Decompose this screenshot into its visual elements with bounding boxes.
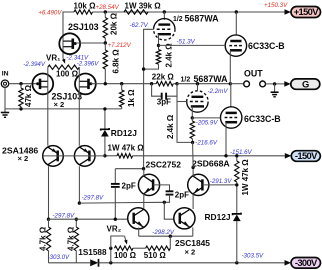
resistor 20kΩ: [104, 12, 106, 18]
terminal -300V: [291, 258, 321, 269]
node: -205.9V: [191, 116, 194, 119]
svg-text:4.7k Ω: 4.7k Ω: [66, 226, 75, 251]
tube V1 6C33C-B (upper output): [235, 12, 237, 35]
svg-text:2SJ103: 2SJ103: [68, 22, 99, 32]
wire: -300V bottom rail: [49, 262, 91, 264]
svg-text:-62.7V: -62.7V: [130, 22, 149, 29]
svg-text:6C33C-B: 6C33C-B: [248, 41, 285, 51]
wire: signal line to OUT: [177, 83, 230, 85]
svg-text:1/2: 1/2: [173, 16, 183, 23]
resistor 47kΩ (input): [19, 88, 23, 107]
svg-text:1W 39k Ω: 1W 39k Ω: [125, 1, 162, 10]
svg-text:1W 47k Ω: 1W 47k Ω: [108, 143, 145, 152]
svg-text:1k Ω: 1k Ω: [127, 89, 136, 107]
terminal -150V: [291, 151, 320, 162]
ground symbol (input): [4, 109, 6, 112]
svg-text:5687WA: 5687WA: [185, 14, 220, 24]
capacitor 2pF (left): [115, 168, 143, 170]
node: input / 47k junction: [19, 82, 22, 85]
transistor Q2 2SJ103 (diff pair left): [32, 74, 53, 95]
svg-text:-297.8V: -297.8V: [53, 213, 76, 220]
wire: Q9 emitter: [192, 227, 194, 236]
wire: main signal line (output bus): [105, 83, 151, 85]
svg-text:OUT: OUT: [244, 69, 263, 79]
wire: Q3 top to VR1 right: [78, 67, 80, 146]
svg-text:3pF: 3pF: [157, 98, 171, 107]
svg-text:2SD668A: 2SD668A: [192, 158, 230, 168]
svg-text:-291.3V: -291.3V: [210, 178, 233, 185]
transistor Q6 2SC2752: [138, 174, 159, 195]
wire: Q8 emitter: [138, 227, 140, 236]
svg-text:-297.8V: -297.8V: [82, 195, 105, 202]
svg-text:10k Ω: 10k Ω: [74, 2, 97, 11]
resistor 22kΩ: [156, 82, 173, 86]
wire: Q7 base to bias chain: [202, 184, 236, 186]
resistor 10kΩ: [74, 10, 93, 14]
wire: U2 cathode: [191, 107, 193, 118]
arrow to G: [284, 81, 291, 87]
node: +7.212V junction: [104, 41, 107, 44]
wire: gate of Q1 to +7.212V node: [75, 42, 105, 44]
wire: Q5 emitter: [78, 166, 80, 203]
arrow to -300V: [285, 260, 292, 266]
svg-text:1/2: 1/2: [181, 77, 191, 84]
svg-text:-150V: -150V: [295, 150, 318, 161]
wiper arrow of VR1: [63, 58, 64, 62]
wire: input to gate of Q2: [9, 83, 36, 85]
svg-text:2SC1845: 2SC1845: [175, 238, 210, 248]
svg-text:-205.9V: -205.9V: [196, 120, 219, 127]
svg-text:-216.6V: -216.6V: [195, 139, 218, 146]
node: grid column / 2.4k: [142, 67, 145, 70]
svg-text:1S1588: 1S1588: [78, 248, 107, 257]
svg-text:2.4k Ω: 2.4k Ω: [166, 114, 175, 139]
resistor 6.8kΩ: [104, 43, 106, 50]
resistor 2.4kΩ (lower): [190, 121, 194, 139]
node: junction top rail / 20k: [104, 10, 107, 13]
terminal +150V: [291, 7, 321, 18]
wire: V1 cathode to OUT bus: [229, 50, 231, 83]
svg-text:× 2: × 2: [185, 248, 196, 257]
wire: V1 grid line: [159, 44, 226, 46]
svg-text:510 Ω: 510 Ω: [144, 251, 167, 260]
wire: emitters to 510Ω: [169, 236, 171, 248]
wire: Q4 emitter: [48, 166, 50, 219]
transistor Q3 2SJ103 (diff pair right): [75, 74, 96, 95]
wire: Q6 base to 2pF: [153, 185, 169, 191]
triode U1 1/2 5687WA (upper): [163, 12, 165, 20]
node: -297.8V (left): [47, 218, 50, 221]
resistor 510Ω: [133, 247, 146, 249]
svg-text:× 2: × 2: [18, 154, 29, 163]
wire: +150V top rail: [63, 12, 74, 13]
svg-text:1W 47k Ω: 1W 47k Ω: [241, 159, 250, 196]
svg-text:4.7k Ω: 4.7k Ω: [39, 226, 48, 251]
svg-text:RD12J: RD12J: [111, 128, 137, 138]
svg-text:100 Ω: 100 Ω: [56, 69, 79, 78]
svg-text:-298.2V: -298.2V: [152, 229, 175, 236]
arrow to +150V: [285, 9, 292, 15]
svg-text:2pF: 2pF: [175, 190, 189, 199]
wire: mirror output line: [79, 201, 164, 204]
tube V2 6C33C-B (lower output): [230, 84, 232, 107]
capacitor 2pF (right): [166, 190, 174, 192]
svg-text:-2.394V: -2.394V: [23, 61, 46, 68]
transistor Q5 2SA1486 (mirror right): [74, 146, 95, 167]
wire: Q6 collector: [143, 169, 145, 176]
wire: Q3 gate to divider node: [91, 83, 105, 85]
svg-text:-151.6V: -151.6V: [230, 149, 253, 156]
wire: Q7 collector: [192, 167, 194, 176]
svg-text:100 Ω: 100 Ω: [114, 251, 137, 260]
svg-text:-2.396V: -2.396V: [77, 60, 100, 67]
svg-text:RD12J: RD12J: [205, 212, 231, 222]
svg-text:22k Ω: 22k Ω: [152, 73, 175, 82]
svg-text:6.8k Ω: 6.8k Ω: [111, 49, 120, 74]
wire: Q2 top to VR1 left: [47, 67, 49, 145]
svg-text:-303.5V: -303.5V: [242, 252, 265, 259]
wire: U2 grid tie: [177, 84, 193, 143]
resistor 2.4kΩ (upper): [156, 50, 160, 65]
svg-text:VR₂: VR₂: [107, 224, 122, 233]
svg-text:6C33C-B: 6C33C-B: [244, 114, 281, 124]
svg-text:+150V: +150V: [294, 6, 320, 17]
node: junction top rail / 6C33C plate: [235, 10, 238, 13]
zener diode RD12J (left): [104, 109, 106, 129]
diode 1S1588: [90, 259, 98, 266]
node: -297.8V (right): [78, 201, 81, 204]
wire: V2 cathode to -150V rail: [225, 122, 227, 155]
ground symbol (output): [274, 84, 276, 92]
resistor 1W 47kΩ (left): [117, 154, 133, 158]
node: junction top rail / 5687 plate: [163, 10, 166, 13]
svg-text:+28.54V: +28.54V: [96, 4, 120, 11]
wire: base lead of Q9: [164, 202, 174, 219]
svg-text:G: G: [302, 78, 309, 89]
wire: Q6 emitter to Q8 collector: [143, 194, 145, 209]
node: -51.3V: [157, 44, 160, 47]
svg-text:-2.2mV: -2.2mV: [208, 88, 229, 95]
wire: -150V rail: [105, 155, 117, 157]
svg-text:-51.3V: -51.3V: [177, 38, 196, 45]
resistor 4.7kΩ (left): [46, 227, 50, 251]
resistor 1W 39kΩ: [124, 10, 148, 14]
svg-text:2SC2752: 2SC2752: [146, 159, 182, 169]
svg-text:-300V: -300V: [295, 257, 318, 268]
svg-text:+150.3V: +150.3V: [264, 2, 288, 9]
arrow to -150V: [285, 153, 292, 159]
wire: U1 grid line: [144, 29, 154, 168]
svg-text:20k Ω: 20k Ω: [109, 12, 118, 35]
transistor Q4 2SA1486 (mirror left): [43, 146, 64, 167]
triode U2 1/2 5687WA (lower): [187, 102, 208, 113]
resistor 1W 47kΩ (right): [236, 156, 238, 161]
svg-text:VR₁: VR₁: [46, 54, 61, 63]
wire: input ground line: [5, 87, 122, 109]
wire: emitters line -298.2V: [139, 235, 193, 237]
wire: Q7 emitter to Q9 collector: [192, 194, 194, 209]
wire: base line of Q8: [49, 218, 128, 220]
svg-text:IN: IN: [2, 70, 9, 77]
transistor Q7 2SD668A: [188, 174, 209, 195]
transistor Q1 2SJ103 upper (current source): [62, 12, 64, 58]
wire: U1 cathode to 2.4k: [158, 34, 160, 49]
potentiometer VR1 100Ω: [48, 65, 80, 69]
zener diode RD12J (right): [233, 213, 241, 216]
wire: mirror base line: [43, 155, 105, 157]
capacitor 3pF: [150, 82, 153, 85]
transistor Q8 2SC1845 (left): [128, 208, 149, 229]
svg-text:× 2: × 2: [54, 100, 65, 109]
resistor 1kΩ: [121, 84, 123, 90]
svg-text:+7.212V: +7.212V: [108, 42, 132, 49]
terminal G: [291, 79, 320, 89]
svg-text:+6.490V: +6.490V: [38, 9, 62, 16]
svg-text:2pF: 2pF: [122, 181, 136, 190]
svg-text:2.4k Ω: 2.4k Ω: [165, 43, 174, 68]
transistor Q9 2SC1845 (right): [174, 208, 195, 229]
node: -216.6V: [191, 141, 194, 144]
wire: U2 plate lead: [197, 84, 199, 92]
svg-text:47k Ω: 47k Ω: [24, 84, 33, 107]
resistor 4.7kΩ (right): [74, 227, 78, 251]
svg-text:-303.0V: -303.0V: [48, 254, 71, 261]
wire: V2 grid line: [192, 117, 220, 119]
